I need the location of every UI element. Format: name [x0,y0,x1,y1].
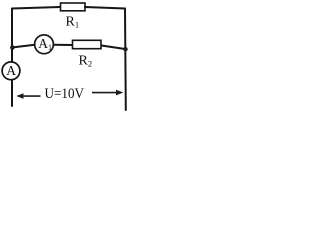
wire left vertical lower [11,80,13,106]
svg-text:R2: R2 [79,54,93,69]
svg-text:A: A [6,63,16,78]
wire top-left segment [12,7,60,9]
svg-text:R1: R1 [66,15,80,30]
svg-text:U=10V: U=10V [45,86,85,102]
node junction left [10,45,15,50]
wire branch left [12,45,35,48]
wire right vertical [124,9,127,111]
svg-text:A1: A1 [38,36,52,52]
wire A1 to R2 [54,44,73,46]
arrow left pointing to left wire [16,93,40,99]
wire left vertical upper [11,9,13,63]
resistor R1 [61,3,86,11]
arrow right pointing to right wire [92,90,123,96]
resistor R2 [73,40,102,48]
node junction right [123,47,127,51]
wire R2 to right vertical [102,46,126,50]
ammeter A1 [35,35,54,54]
wire top-right segment [85,7,125,9]
ammeter A [2,62,20,80]
